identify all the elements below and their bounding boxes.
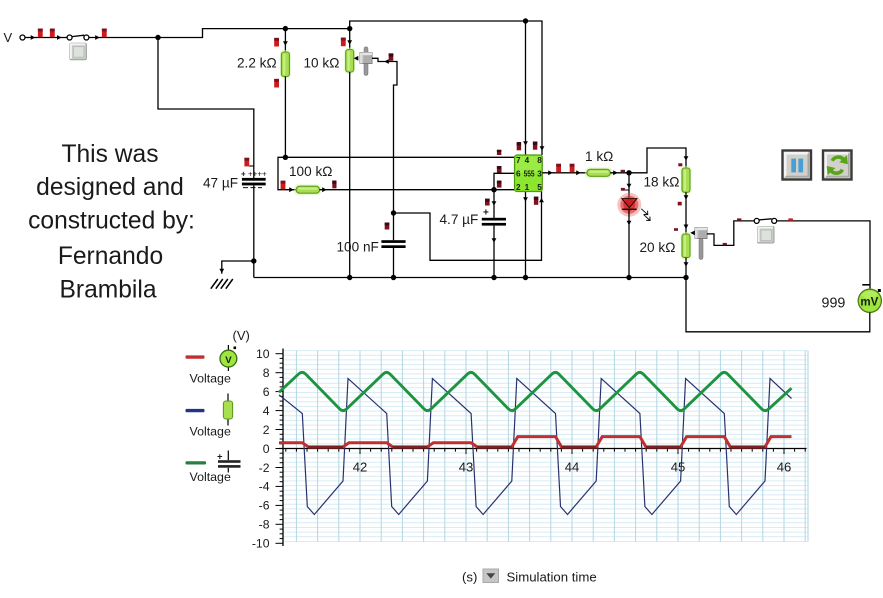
svg-text:45: 45 [671, 460, 686, 475]
svg-text:designed and: designed and [36, 174, 184, 201]
wire to pin 4 [525, 21, 527, 155]
svg-text:-2: -2 [259, 461, 270, 475]
node F junction [251, 258, 256, 263]
switch SW1 [72, 35, 84, 36]
wire 1k to node E [610, 172, 629, 174]
axis x [279, 448, 807, 450]
trace red output voltage [279, 437, 792, 447]
button for switch SW2 [758, 227, 775, 244]
svg-text:6: 6 [263, 385, 270, 399]
IC U1 555 timer [515, 155, 543, 192]
svg-text:constructed by:: constructed by: [28, 208, 195, 235]
svg-text:Voltage: Voltage [190, 425, 231, 439]
svg-text:10 kΩ: 10 kΩ [304, 56, 340, 71]
svg-text:5: 5 [537, 183, 542, 192]
svg-text:2: 2 [263, 423, 270, 437]
wire switch SW2 to meter [777, 221, 870, 289]
wire LED to bottom rail [628, 209, 630, 277]
svg-text:+: + [483, 208, 489, 219]
oscilloscope grid [283, 351, 808, 542]
wire top rail [158, 29, 350, 38]
wire node F to ground [222, 261, 254, 274]
axis y [282, 349, 284, 547]
svg-text:100 nF: 100 nF [337, 240, 379, 255]
svg-text:46: 46 [777, 460, 792, 475]
svg-text:Fernando: Fernando [58, 243, 163, 270]
svg-text:18 kΩ: 18 kΩ [644, 175, 680, 190]
node B junction [283, 155, 288, 160]
svg-text:++++: ++++ [248, 170, 267, 179]
wire 4.7uF to bottom rail [493, 226, 495, 278]
potentiometer 10 kOhm [349, 29, 351, 50]
switch SW2 [759, 219, 772, 220]
potentiometer 20 kOhm [681, 232, 692, 260]
svg-text:555: 555 [524, 170, 535, 179]
wiper knob of 10k potentiometer [364, 47, 368, 76]
node A junction [155, 35, 160, 40]
svg-text:2: 2 [516, 183, 521, 192]
LED light arrows [641, 209, 650, 221]
wire R2.2k to node B [284, 77, 286, 158]
wire 20k to bottom rail [685, 258, 687, 278]
voltmeter M1 mV [858, 289, 881, 312]
svg-text:1 kΩ: 1 kΩ [585, 149, 613, 164]
wire source to switch [25, 37, 67, 39]
wire node E up to 18k column [629, 148, 686, 173]
svg-text:8: 8 [263, 366, 270, 380]
capacitor 4.7 uF [493, 190, 495, 218]
svg-text:20 kΩ: 20 kΩ [640, 240, 676, 255]
button for switch SW1 [70, 43, 87, 60]
svg-text:100 kΩ: 100 kΩ [289, 164, 332, 179]
node junction above R 10k [347, 26, 352, 31]
svg-text:44: 44 [565, 460, 580, 475]
svg-text:V: V [4, 30, 13, 45]
svg-text:-8: -8 [259, 518, 270, 532]
svg-text:-6: -6 [259, 499, 270, 513]
axis labels [252, 347, 270, 551]
node junction above R 2.2k [283, 26, 288, 31]
wire switch to node A [89, 37, 158, 39]
wire 18k to 20k [685, 192, 687, 234]
svg-text:Brambila: Brambila [59, 277, 156, 304]
resistor 1 kOhm [585, 167, 613, 178]
wire 555 pin 3 output [542, 172, 587, 174]
capacitor 47 uF electrolytic [244, 158, 249, 167]
wire 555 pin 1 to bottom rail [525, 192, 527, 278]
node D junction pin2/pin6 [491, 187, 496, 192]
wire 20k wiper to switch SW2 [707, 221, 754, 246]
wire upper rail to 555 [350, 21, 542, 155]
trace green capacitor voltage [279, 372, 792, 410]
svg-text:V: V [225, 355, 232, 366]
svg-text:47 µF: 47 µF [203, 176, 238, 191]
capacitor 100 nF [393, 213, 395, 240]
svg-text:+: + [241, 170, 246, 179]
svg-text:Voltage: Voltage [190, 470, 231, 484]
refresh button [823, 151, 852, 180]
svg-text:4: 4 [263, 404, 270, 418]
text credit note [28, 141, 195, 304]
wire 100nF to bottom rail [393, 248, 395, 278]
svg-text:0: 0 [263, 442, 270, 456]
resistor 18 kOhm [681, 166, 692, 194]
legend red voltmeter [186, 355, 205, 358]
wire meter loop to bottom rail [686, 278, 870, 332]
pause button [783, 151, 812, 180]
svg-text:8: 8 [537, 156, 542, 165]
legend blue resistor [186, 409, 205, 412]
svg-text:(V): (V) [233, 328, 250, 343]
svg-text:-10: -10 [252, 537, 270, 551]
wire node D to 555 pin 6 [494, 173, 515, 189]
svg-text:10: 10 [256, 347, 270, 361]
resistor 2.2 kOhm [284, 29, 286, 52]
svg-text:4: 4 [525, 156, 530, 165]
wire node B to 555 pin 7 [285, 156, 514, 158]
wire 47uF down [253, 185, 255, 277]
LED D1 [628, 173, 630, 199]
svg-text:3: 3 [537, 170, 542, 179]
wire 10k wiper to node C [372, 58, 397, 213]
svg-text:7: 7 [516, 156, 521, 165]
wire bottom rail [254, 277, 686, 279]
legend green capacitor [186, 461, 207, 464]
meter terminal mark [862, 284, 870, 286]
svg-text:mV: mV [860, 296, 878, 308]
svg-text:Simulation time: Simulation time [507, 570, 597, 585]
node junction pin4 drop [523, 18, 528, 23]
ground [211, 279, 233, 289]
resistor 100 kOhm [278, 157, 296, 189]
wire node A to 47uF [158, 38, 254, 179]
trace blue voltage across potentiometer [279, 379, 792, 515]
svg-text:6: 6 [516, 170, 521, 179]
svg-text:(s): (s) [462, 570, 477, 585]
node E junction [626, 170, 631, 175]
svg-text:Voltage: Voltage [190, 372, 231, 386]
node C junction [391, 210, 396, 215]
svg-text:1: 1 [525, 183, 530, 192]
svg-text:4.7 µF: 4.7 µF [440, 212, 479, 227]
svg-text:43: 43 [459, 460, 474, 475]
svg-text:42: 42 [353, 460, 368, 475]
wiper knob of 20k potentiometer [699, 238, 703, 260]
wire node C to 555 pin 5 [394, 192, 542, 261]
trace red low overlay [308, 446, 765, 449]
svg-text:999: 999 [822, 296, 846, 312]
wire R10k down to bottom rail [349, 72, 351, 278]
svg-text:2.2 kΩ: 2.2 kΩ [237, 56, 277, 71]
wire R100k to 555 pin 2 [320, 189, 515, 191]
svg-text:This was: This was [61, 141, 158, 168]
svg-text:-4: -4 [259, 480, 270, 494]
